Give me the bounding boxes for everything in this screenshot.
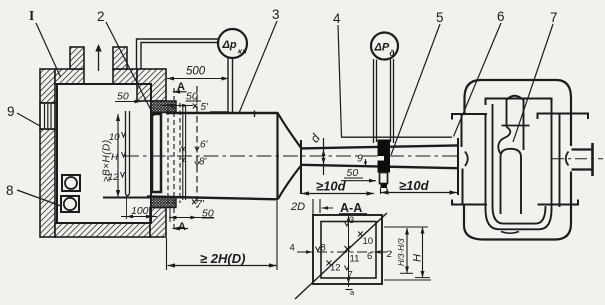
silencer casing top-left corner	[465, 80, 481, 114]
top-right flange	[538, 114, 589, 120]
svg-text:6: 6	[497, 9, 505, 24]
inner H/3 dimension line	[400, 228, 413, 273]
dimension 2D	[290, 199, 333, 215]
gauge dPkl tube (chamber tap)	[137, 39, 220, 70]
inlet stub right block	[113, 47, 127, 69]
right stub centerline	[552, 158, 603, 160]
svg-text:H: H	[111, 152, 118, 163]
svg-text:500: 500	[186, 66, 206, 78]
shelf plate (item 7 area)	[502, 125, 530, 127]
main centerline	[124, 155, 459, 157]
flange cone/pipe	[300, 140, 302, 194]
dimension line d across pipe	[322, 138, 326, 175]
callout 2	[97, 9, 154, 116]
svg-text:2: 2	[387, 249, 392, 260]
S-bend squiggle	[498, 127, 510, 154]
svg-text:≥10d: ≥10d	[316, 179, 347, 194]
callout 3	[239, 7, 280, 113]
point 12	[327, 261, 341, 274]
section marker A top	[173, 81, 187, 94]
small smile arc under U	[501, 232, 519, 234]
tick marks at double line crossing	[181, 147, 186, 163]
A-A inner square	[321, 222, 376, 279]
chamber inner box	[57, 84, 151, 223]
svg-text:Н/3·Н/3: Н/3·Н/3	[397, 238, 406, 266]
joint tick on box top edge	[254, 111, 256, 118]
line above pipe to flange	[341, 136, 452, 138]
section plane A-A dashed line	[173, 88, 175, 230]
tick label H	[111, 152, 126, 163]
svg-text:11: 11	[350, 254, 360, 265]
svg-text:5: 5	[436, 10, 444, 25]
svg-text:7: 7	[348, 270, 353, 281]
silencer casing right wall lower	[570, 172, 572, 224]
gauge dPkl tube (box tap)	[210, 57, 233, 112]
chamber left wall (hatched)	[40, 69, 55, 237]
chamber bottom-right corner block	[150, 208, 166, 238]
right inner channel walls	[552, 104, 560, 210]
dimension >=2H(D)	[167, 201, 278, 270]
arrow at inner right edge	[375, 250, 383, 253]
svg-text:6': 6'	[200, 140, 209, 151]
callout 7	[513, 10, 558, 142]
chamber top-right corner block	[137, 69, 166, 101]
svg-text:Δp: Δp	[222, 39, 237, 51]
callout 4	[333, 11, 342, 137]
tick label 10	[109, 132, 126, 143]
label 9 tap with arrow	[357, 153, 367, 167]
node 6'	[195, 140, 209, 151]
node 8'	[195, 157, 208, 168]
dimension >=10d right	[381, 178, 457, 195]
svg-text:2D: 2D	[290, 201, 305, 213]
gasket arc right	[566, 152, 569, 166]
svg-text:кл: кл	[238, 47, 247, 56]
svg-text:9: 9	[7, 104, 15, 119]
silencer casing top-right corner	[557, 80, 571, 146]
callout 6	[454, 9, 505, 137]
svg-text:3: 3	[349, 215, 354, 226]
central inlet tube	[507, 100, 524, 151]
chamber bottom wall band	[55, 223, 150, 237]
svg-text:2: 2	[97, 9, 105, 24]
top flange block (dense hatch)	[151, 101, 176, 113]
dimension 50 (screen to plane A)	[162, 91, 201, 108]
node 5'	[193, 102, 209, 113]
svg-text:8': 8'	[199, 157, 208, 168]
svg-text:50: 50	[117, 91, 129, 103]
chamber top wall band	[55, 69, 137, 84]
bottom-left flange	[452, 200, 487, 205]
callout 8	[6, 183, 61, 206]
svg-text:3: 3	[272, 7, 280, 22]
dimension 50 upper-left with arrow	[115, 91, 141, 104]
bell arch channel	[501, 149, 522, 214]
A-A outer square	[313, 215, 382, 284]
left port wall lower	[462, 169, 464, 205]
inlet stub left block	[70, 47, 84, 69]
node 7'	[192, 199, 205, 210]
vertical dimension line BxH with arrows	[116, 114, 120, 197]
svg-text:10: 10	[109, 132, 120, 143]
point 10	[358, 232, 373, 248]
inner top line	[486, 99, 552, 106]
cone top line	[278, 114, 301, 148]
top-left flange	[452, 114, 487, 120]
svg-text:A-A: A-A	[340, 201, 362, 215]
knob lower (item 8)	[61, 196, 79, 212]
gasket arc at pipe end	[465, 152, 468, 167]
chamber wall window grille (item 9)	[40, 103, 55, 129]
probe tubes to gauge	[374, 59, 394, 143]
bottom-right flange	[538, 200, 579, 205]
svg-text:≥ 2H(D): ≥ 2H(D)	[200, 251, 245, 266]
right stub flange	[591, 143, 594, 176]
point 4 arrow	[290, 243, 313, 254]
pipe end flange	[457, 138, 459, 195]
inlet flow arrow	[95, 44, 101, 71]
knob upper (item 8 group)	[62, 175, 80, 191]
right stub bottom	[572, 168, 593, 170]
tick label 12	[108, 172, 125, 183]
callout 5	[391, 10, 444, 155]
dimension >=10d left	[302, 179, 375, 196]
outer H dimension line	[415, 227, 430, 278]
dashed screen line 1	[167, 103, 169, 203]
svg-text:H: H	[412, 254, 424, 262]
callout I	[29, 8, 61, 77]
central tube dome cap	[507, 96, 524, 100]
svg-text:8: 8	[321, 243, 326, 254]
svg-text:I: I	[29, 8, 34, 23]
measurement plane dashed line	[196, 86, 198, 208]
svg-text:5': 5'	[201, 102, 210, 113]
cone bottom line	[278, 166, 301, 200]
left port wall upper	[461, 114, 463, 147]
svg-text:4: 4	[290, 243, 295, 254]
point 7	[345, 266, 353, 281]
dashed screen line 2	[179, 103, 181, 203]
collector box bottom edge	[147, 197, 278, 200]
probe body (item 5)	[378, 140, 391, 173]
svg-text:12: 12	[330, 263, 341, 274]
dimension 50 bottom (plane to 7')	[169, 206, 214, 222]
probe stem below pipe	[380, 173, 388, 195]
hanging tube inside chamber	[126, 111, 130, 196]
dimension 50 at probe	[341, 167, 376, 183]
point 3	[345, 215, 355, 226]
silencer casing bottom	[484, 238, 556, 240]
svg-text:50: 50	[347, 167, 359, 179]
U-bottom outer	[486, 209, 552, 229]
screen / honeycomb	[152, 114, 161, 192]
svg-text:д: д	[390, 49, 395, 58]
svg-text:4: 4	[333, 11, 341, 26]
pipe bottom wall	[301, 165, 458, 168]
collector box right edge	[276, 112, 278, 200]
section marker A bottom	[173, 221, 189, 233]
collector box top edge	[166, 112, 278, 114]
silencer casing bottom-left corner	[464, 205, 484, 240]
gauge U1 dP-kl	[218, 29, 247, 58]
svg-text:9: 9	[357, 153, 363, 165]
svg-text:10: 10	[363, 236, 374, 247]
left inner channel walls	[486, 104, 493, 210]
callout 9	[7, 104, 40, 126]
U-bottom inner	[493, 206, 546, 224]
A-A diagonal	[295, 213, 387, 299]
center cross point 11	[345, 246, 360, 265]
silencer casing top	[480, 79, 557, 81]
dimension 500	[167, 66, 229, 81]
svg-text:12: 12	[108, 172, 119, 183]
pipe top wall	[301, 145, 458, 148]
A-A vertical centerline	[346, 213, 353, 290]
svg-text:7: 7	[550, 10, 558, 25]
dimension 100	[121, 205, 157, 218]
bottom flange block (dense hatch)	[151, 197, 176, 208]
svg-text:≥10d: ≥10d	[399, 178, 430, 193]
A-A right extension lines	[384, 227, 431, 280]
A-A horizontal centerline	[297, 251, 392, 253]
gauge U2 dP-d	[371, 33, 398, 60]
nozzle mouth lower lip line	[103, 197, 151, 199]
point 8	[316, 243, 326, 254]
right stub top	[572, 148, 593, 150]
svg-text:8: 8	[6, 183, 14, 198]
svg-text:ΔP: ΔP	[374, 42, 390, 54]
silencer casing bottom-right corner	[555, 224, 571, 240]
double solid line in box	[183, 106, 186, 200]
svg-text:6: 6	[367, 251, 372, 262]
